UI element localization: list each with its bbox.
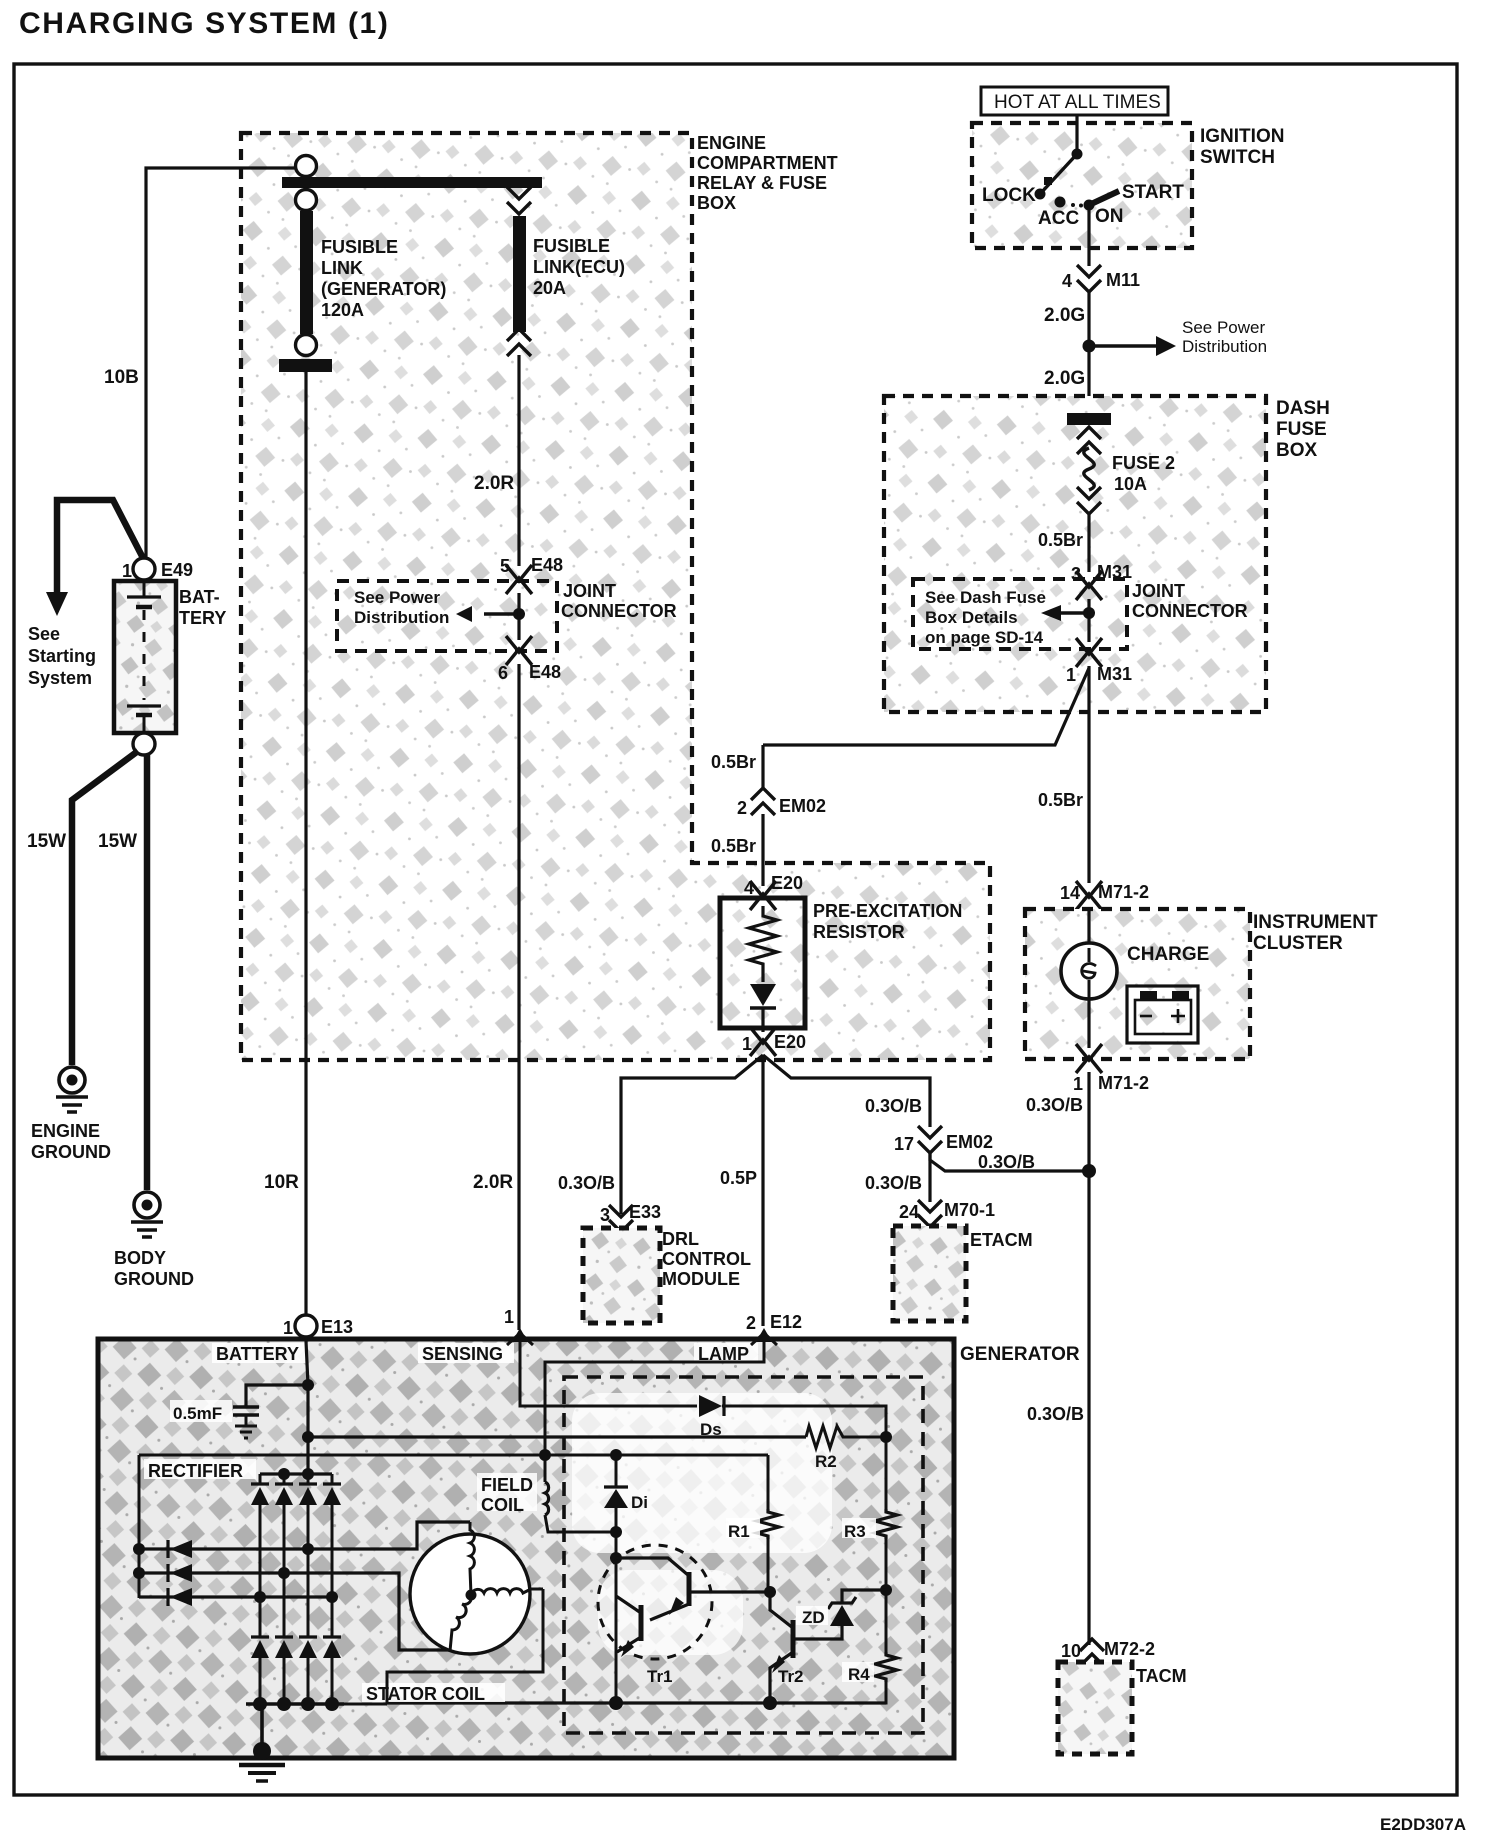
diode Di [604, 1455, 648, 1703]
svg-text:1: 1 [1073, 1074, 1083, 1094]
resistor R4 [771, 1584, 897, 1703]
svg-text:4: 4 [1062, 271, 1072, 291]
svg-text:EM02: EM02 [946, 1132, 993, 1152]
generator terminal labels [212, 1343, 758, 1364]
TACM box [1058, 1662, 1187, 1754]
svg-text:SWITCH: SWITCH [1200, 147, 1275, 168]
DRL control module box [583, 1228, 751, 1323]
svg-text:INSTRUMENT: INSTRUMENT [1253, 912, 1378, 933]
resistor R3 [842, 1437, 897, 1590]
ETACM box [893, 1226, 1033, 1321]
wire 2.0R down from ECU link [474, 355, 519, 566]
svg-text:COMPARTMENT: COMPARTMENT [697, 153, 838, 173]
engine compartment relay & fuse box [241, 133, 990, 1060]
svg-text:24: 24 [899, 1202, 919, 1222]
svg-text:Starting: Starting [28, 646, 96, 666]
fuse 2 10A [1067, 413, 1175, 514]
svg-text:CHARGE: CHARGE [1127, 944, 1209, 965]
svg-text:E33: E33 [629, 1202, 661, 1222]
fusible link (ECU) 20A [507, 187, 625, 356]
svg-text:See Power: See Power [1182, 318, 1265, 337]
wire from hot box into switch [1075, 115, 1078, 152]
svg-text:E2DD307A: E2DD307A [1380, 1815, 1466, 1834]
svg-text:0.3O/B: 0.3O/B [1027, 1404, 1084, 1424]
joint connector E48 box [337, 581, 677, 651]
field trio diodes [168, 1540, 192, 1606]
svg-text:IGNITION: IGNITION [1200, 126, 1284, 147]
svg-text:0.3O/B: 0.3O/B [1026, 1095, 1083, 1115]
svg-text:3: 3 [600, 1205, 610, 1225]
svg-text:2.0G: 2.0G [1044, 368, 1085, 389]
svg-text:10B: 10B [104, 367, 139, 388]
wire from ON down to M11 [1087, 205, 1090, 266]
svg-text:E13: E13 [321, 1317, 353, 1337]
svg-text:2.0G: 2.0G [1044, 305, 1085, 326]
svg-text:GENERATOR: GENERATOR [960, 1344, 1080, 1365]
connector 1 E13 [283, 1315, 353, 1338]
svg-text:DRL: DRL [662, 1229, 699, 1249]
phase row 2 [133, 1567, 450, 1650]
svg-text:6: 6 [498, 663, 508, 683]
svg-text:ZD: ZD [802, 1608, 825, 1627]
svg-text:STATOR COIL: STATOR COIL [366, 1684, 485, 1704]
svg-text:ON: ON [1095, 206, 1124, 227]
arrow to see power distribution [456, 606, 525, 622]
svg-text:See: See [28, 624, 60, 644]
svg-text:M71-2: M71-2 [1098, 882, 1149, 902]
svg-text:(GENERATOR): (GENERATOR) [321, 279, 446, 299]
svg-text:E12: E12 [770, 1312, 802, 1332]
svg-text:COIL: COIL [481, 1495, 524, 1515]
connector 2 E12 lamp arrow [746, 1312, 802, 1345]
svg-text:0.5Br: 0.5Br [1038, 790, 1083, 810]
stator neutral tap [262, 1589, 543, 1704]
svg-text:CONNECTOR: CONNECTOR [561, 601, 677, 621]
svg-text:4: 4 [744, 878, 754, 898]
transistor Tr2 [764, 1586, 842, 1709]
phase row 1 [133, 1522, 470, 1555]
svg-text:M11: M11 [1106, 270, 1140, 290]
svg-text:2.0R: 2.0R [473, 1172, 513, 1193]
sensing terminal arrow 1 [504, 1307, 533, 1345]
svg-text:10R: 10R [264, 1172, 299, 1193]
generator box [98, 1339, 1080, 1758]
svg-text:ETACM: ETACM [970, 1230, 1033, 1250]
diode Ds [699, 1395, 886, 1439]
phase row 3 [139, 1591, 338, 1603]
svg-text:LINK: LINK [321, 258, 363, 278]
joint connector M31 box [913, 579, 1248, 649]
svg-text:M71-2: M71-2 [1098, 1073, 1149, 1093]
svg-text:on page SD-14: on page SD-14 [925, 628, 1044, 647]
stator coil [410, 1522, 543, 1654]
svg-text:Tr2: Tr2 [778, 1667, 804, 1686]
battery negative terminal circle [133, 733, 155, 755]
svg-text:BAT-: BAT- [179, 587, 220, 607]
wire from EM02-17 to junction [930, 1152, 1090, 1172]
rectifier columns [260, 1505, 332, 1637]
svg-text:M31: M31 [1097, 664, 1132, 684]
zener diode ZD [796, 1590, 886, 1627]
wire 10R from fusible link down to E13 [264, 372, 306, 1315]
bus bar [282, 177, 542, 188]
transistor Tr1 darlington [598, 1545, 770, 1686]
svg-text:HOT AT ALL TIMES: HOT AT ALL TIMES [994, 92, 1161, 113]
field coil [477, 1455, 614, 1532]
svg-text:2: 2 [737, 798, 747, 818]
fusible link (generator) 120A [279, 211, 446, 372]
svg-text:CONNECTOR: CONNECTOR [1132, 601, 1248, 621]
wire branch from E20 to EM02-17 [763, 1055, 930, 1127]
terminal circle top [296, 156, 317, 177]
svg-text:0.5P: 0.5P [720, 1168, 757, 1188]
connector 10 M72-2 [1061, 1639, 1155, 1666]
svg-text:BOX: BOX [697, 193, 736, 213]
svg-text:System: System [28, 668, 92, 688]
wire 15W to engine ground [27, 751, 138, 1065]
svg-text:15W: 15W [27, 831, 66, 852]
svg-text:0.5Br: 0.5Br [1038, 530, 1083, 550]
wire 2.0R long down to generator sensing [473, 664, 519, 1330]
svg-text:2: 2 [746, 1313, 756, 1333]
rectifier bottom diodes [251, 1637, 341, 1704]
svg-text:E49: E49 [161, 560, 193, 580]
wire 0.5Br down to M71-2 [1038, 666, 1089, 883]
svg-text:17: 17 [894, 1134, 914, 1154]
svg-text:GROUND: GROUND [31, 1142, 111, 1162]
svg-text:0.3O/B: 0.3O/B [978, 1152, 1035, 1172]
svg-text:5: 5 [500, 556, 510, 576]
connector 14 M71-2 [1060, 881, 1149, 910]
wire 0.3O/B down right side [1026, 1072, 1096, 1645]
rectifier bottom bus [246, 1697, 344, 1711]
wire 2.0G [1044, 292, 1089, 398]
terminal circle below bar [296, 190, 317, 211]
connector 3 E33 [600, 1202, 661, 1232]
wire 15W to body ground [98, 755, 147, 1190]
wire between E48 connectors [517, 593, 520, 640]
wire 0.5Br to M31 [1038, 514, 1089, 572]
svg-text:0.3O/B: 0.3O/B [865, 1096, 922, 1116]
svg-text:RESISTOR: RESISTOR [813, 922, 905, 942]
body ground [114, 1192, 194, 1289]
dash fuse box [884, 396, 1330, 712]
connector 1 M71-2 [1073, 1044, 1149, 1094]
stator coil label [362, 1683, 505, 1704]
connector 1 E20 [742, 1027, 806, 1056]
svg-text:CLUSTER: CLUSTER [1253, 933, 1343, 954]
engine ground [31, 1067, 111, 1162]
svg-text:2.0R: 2.0R [474, 473, 514, 494]
svg-text:10A: 10A [1114, 474, 1147, 494]
svg-text:EM02: EM02 [779, 796, 826, 816]
svg-text:Tr1: Tr1 [647, 1667, 673, 1686]
svg-text:See Power: See Power [354, 588, 440, 607]
svg-text:15W: 15W [98, 831, 137, 852]
connector 1 E49 [122, 558, 193, 581]
svg-text:0.3O/B: 0.3O/B [558, 1173, 615, 1193]
svg-text:CHARGING SYSTEM (1): CHARGING SYSTEM (1) [19, 7, 389, 40]
svg-text:Box Details: Box Details [925, 608, 1018, 627]
capacitor 0.5mF [170, 1379, 314, 1438]
svg-text:1: 1 [504, 1307, 514, 1327]
wire branch from E20 to DRL [558, 1055, 763, 1214]
svg-text:10: 10 [1061, 1641, 1081, 1661]
svg-text:E20: E20 [774, 1032, 806, 1052]
svg-text:RECTIFIER: RECTIFIER [148, 1461, 243, 1481]
svg-text:ENGINE: ENGINE [697, 133, 766, 153]
svg-text:0.5Br: 0.5Br [711, 836, 756, 856]
svg-text:RELAY & FUSE: RELAY & FUSE [697, 173, 827, 193]
svg-text:Di: Di [631, 1493, 648, 1512]
connector 1 M31 [1066, 638, 1132, 685]
instrument cluster box [1025, 909, 1378, 1059]
wire 0.5Br to EM02 [711, 745, 763, 788]
sensing line to Ds [520, 1341, 697, 1406]
svg-text:CONTROL: CONTROL [662, 1249, 751, 1269]
svg-text:MODULE: MODULE [662, 1269, 740, 1289]
battery [114, 581, 226, 733]
svg-text:E48: E48 [529, 662, 561, 682]
svg-text:0.3O/B: 0.3O/B [865, 1173, 922, 1193]
connector 6 E48 [498, 636, 561, 683]
svg-text:0.5mF: 0.5mF [173, 1404, 222, 1423]
svg-text:SENSING: SENSING [422, 1344, 503, 1364]
svg-text:E48: E48 [531, 555, 563, 575]
svg-text:0.5Br: 0.5Br [711, 752, 756, 772]
svg-text:DASH: DASH [1276, 398, 1330, 419]
svg-text:START: START [1122, 182, 1184, 203]
svg-text:TACM: TACM [1136, 1666, 1187, 1686]
lamp line [545, 1341, 764, 1453]
wire 0.5Br to E20 [711, 814, 763, 886]
svg-text:LOCK: LOCK [982, 185, 1036, 206]
svg-text:120A: 120A [321, 300, 364, 320]
svg-text:FUSE 2: FUSE 2 [1112, 453, 1175, 473]
wire 10B from fuse box to battery [104, 168, 296, 558]
svg-text:1: 1 [283, 1318, 293, 1338]
svg-text:PRE-EXCITATION: PRE-EXCITATION [813, 901, 962, 921]
svg-text:BOX: BOX [1276, 440, 1318, 461]
svg-text:1: 1 [1066, 665, 1076, 685]
svg-text:FIELD: FIELD [481, 1475, 533, 1495]
arrow left in M31 joint box [1041, 605, 1095, 621]
ignition switch box [972, 123, 1284, 248]
svg-text:FUSIBLE: FUSIBLE [533, 236, 610, 256]
rectifier top diodes [251, 1474, 341, 1505]
svg-text:FUSE: FUSE [1276, 419, 1327, 440]
svg-text:1: 1 [122, 561, 132, 581]
rectifier [139, 1455, 256, 1598]
svg-text:M70-1: M70-1 [944, 1200, 995, 1220]
svg-text:See Dash Fuse: See Dash Fuse [925, 588, 1046, 607]
svg-text:14: 14 [1060, 883, 1080, 903]
svg-text:FUSIBLE: FUSIBLE [321, 237, 398, 257]
svg-text:ENGINE: ENGINE [31, 1121, 100, 1141]
svg-text:R1: R1 [728, 1522, 750, 1541]
connector 4 E20 [744, 873, 803, 910]
connector 4 M11 [1062, 265, 1140, 292]
pre-excitation resistor [720, 898, 962, 1032]
HOT AT ALL TIMES box [981, 87, 1168, 115]
svg-text:GROUND: GROUND [114, 1269, 194, 1289]
svg-text:R4: R4 [848, 1665, 870, 1684]
svg-text:E20: E20 [771, 873, 803, 893]
connector 5 E48 [500, 555, 563, 594]
svg-text:M72-2: M72-2 [1104, 1639, 1155, 1659]
battery telltale icon [1127, 986, 1198, 1043]
svg-text:BODY: BODY [114, 1248, 166, 1268]
connector 17 EM02 [894, 1126, 993, 1154]
svg-text:Distribution: Distribution [1182, 337, 1267, 356]
wire 0.5P from E20 to E12 [720, 1055, 763, 1326]
svg-text:20A: 20A [533, 278, 566, 298]
svg-text:BATTERY: BATTERY [216, 1344, 299, 1364]
ignition switch lever and contacts [982, 149, 1184, 230]
battery sense bus with resistor R2 [302, 1426, 892, 1471]
wire between M31 connectors [1087, 599, 1090, 642]
field supply line C [139, 1449, 768, 1461]
wire through cluster [1087, 909, 1090, 944]
svg-text:ACC: ACC [1038, 208, 1079, 229]
connector 3 M31 [1071, 562, 1132, 600]
branch wire from M31 to EM02 [763, 668, 1089, 745]
svg-text:R2: R2 [815, 1452, 837, 1471]
regulator ground line [387, 1696, 886, 1710]
svg-text:R3: R3 [844, 1522, 866, 1541]
svg-text:JOINT: JOINT [563, 581, 616, 601]
connector 2 EM02 [737, 788, 826, 818]
battery column inside generator [306, 1337, 308, 1476]
svg-text:JOINT: JOINT [1132, 581, 1185, 601]
charge lamp [1061, 943, 1209, 999]
svg-text:LINK(ECU): LINK(ECU) [533, 257, 625, 277]
generator ground [239, 1704, 285, 1781]
svg-text:1: 1 [742, 1034, 752, 1054]
see power distribution arrow [1083, 318, 1268, 356]
voltage regulator dashed box [564, 1377, 923, 1733]
connector 24 M70-1 [899, 1200, 995, 1227]
rectifier top bus [260, 1468, 332, 1480]
svg-text:TERY: TERY [179, 608, 226, 628]
resistor R1 [726, 1455, 779, 1592]
wire 0.3O/B from EM02-17 to M70-1 [865, 1153, 930, 1202]
svg-text:Distribution: Distribution [354, 608, 449, 627]
see starting system tap [28, 500, 144, 688]
